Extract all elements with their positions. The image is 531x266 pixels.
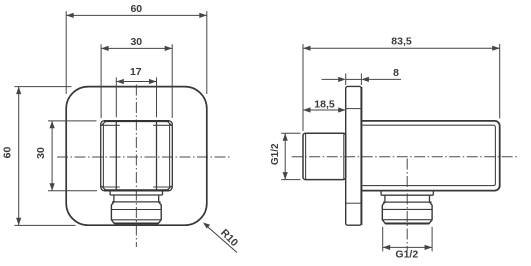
dim 17: dimension line with arrows (116, 81, 156, 83)
outlet nut bottom edge (front, thick) (114, 222, 158, 224)
dim 30 left: bottom extension line (48, 190, 97, 192)
dim 8: right approach line with arrow (363, 78, 401, 80)
svg-text:17: 17 (130, 66, 142, 78)
boss corner arc bottom-left (102, 186, 106, 190)
svg-text:60: 60 (130, 3, 142, 15)
centerline vertical (outlet axis side view) (406, 159, 408, 251)
dim 17: left extension line (115, 77, 117, 117)
dim 30 left: top extension line (48, 120, 97, 122)
dim 83,5: right extension line (499, 44, 501, 119)
outlet nut chamfer line (front) (111, 219, 161, 221)
boss corner arc bottom-right (167, 186, 171, 190)
boss face line right (17) (156, 121, 158, 191)
dim 30 left: dimension line with arrows (51, 121, 53, 191)
dim 8: middle segment (346, 78, 362, 80)
outlet collar 2 (front) (112, 195, 161, 202)
outlet nut (front) (111, 202, 161, 224)
boss corner arc top-left (102, 122, 106, 126)
dim 60 top: dimension line with arrows (66, 14, 207, 16)
body tube (side view) (361, 121, 499, 191)
nipple thread tangent line (right) (343, 134, 345, 179)
outlet nut mid line (front) (111, 209, 161, 211)
dim 60 top: left extension line (65, 11, 67, 94)
flange corner tangent line lower (346, 202, 362, 204)
dim 8: left approach line with arrow (322, 78, 345, 80)
dim 83,5: left extension line (302, 44, 304, 131)
dim 30 top: right extension line (171, 44, 173, 118)
body inner contour top (361, 125, 495, 185)
escutcheon boss top edge (thick) (104, 120, 169, 122)
dim G1/2 bottom: left extension line (382, 227, 384, 252)
flange right face (thick) (360, 87, 362, 225)
wall plate square outline (60x60, R10 corners) (66, 87, 207, 226)
dim G1/2 bottom: dimension line with arrows (383, 246, 432, 248)
dim 60 left: dimension line with arrows (18, 87, 20, 226)
dim G1/2 left: bottom extension line (281, 179, 300, 181)
dim 60 top: right extension line (206, 11, 208, 94)
svg-text:30: 30 (130, 36, 142, 48)
svg-text:30: 30 (35, 147, 47, 159)
outlet nut bottom edge (side, thick) (385, 223, 429, 225)
dim 30 top: left extension line (100, 44, 102, 118)
boss side tangent line left (102, 124, 104, 188)
escutcheon boss outline (30x30) (101, 121, 173, 191)
svg-text:R10: R10 (218, 227, 240, 249)
outlet collar 1 (front) (110, 191, 162, 195)
dim 17: right extension line (156, 77, 158, 117)
outlet nut (side) (382, 202, 432, 223)
centerline vertical (front view axis) (135, 85, 137, 248)
boss corner arc top-right (167, 122, 171, 126)
outlet nut chamfer line (side) (382, 219, 432, 221)
dim G1/2 left: dimension line with arrows (284, 133, 286, 179)
dim 18,5: dimension line with arrows (303, 109, 346, 111)
svg-text:G1/2: G1/2 (395, 248, 418, 260)
nipple end chamfer line (left) (305, 134, 307, 179)
svg-text:18,5: 18,5 (314, 99, 335, 111)
boss side tangent line right (169, 124, 171, 188)
dim 8: right extension tick (360, 74, 362, 86)
svg-text:60: 60 (2, 147, 14, 159)
outlet collar 1 (side) (381, 191, 433, 196)
dim 30 top: dimension line with arrows (101, 47, 172, 49)
boss face line left (17) (115, 121, 117, 191)
svg-text:8: 8 (393, 67, 399, 79)
outlet nut mid line (side) (382, 208, 432, 210)
inlet nipple G1/2 (side view) (303, 133, 346, 179)
boss corner tangent top-left (101, 124, 120, 126)
boss corner tangent bottom-right (153, 186, 172, 188)
dim G1/2 left: top extension line (281, 132, 300, 134)
boss corner tangent bottom-left (101, 186, 120, 188)
dim 60 left: top extension line (14, 86, 71, 88)
dim 8: left extension tick (345, 74, 347, 86)
wall flange plate (side view, 8 thick) (346, 86, 362, 225)
flange corner tangent line upper (346, 108, 362, 110)
centerline horizontal (pipe axis side view) (292, 156, 519, 158)
outlet collar 2 (side) (383, 195, 432, 202)
centerline horizontal (front view axis) (57, 156, 231, 158)
radius leader R10 arrow (205, 224, 238, 253)
dim G1/2 bottom: right extension line (431, 227, 433, 252)
escutcheon boss bottom edge (thick) (104, 189, 169, 191)
boss corner tangent top-right (153, 124, 172, 126)
svg-text:83,5: 83,5 (391, 36, 412, 48)
dim 83,5: dimension line with arrows (303, 47, 500, 49)
dim 60 left: bottom extension line (14, 224, 75, 226)
svg-text:G1/2: G1/2 (270, 143, 281, 165)
